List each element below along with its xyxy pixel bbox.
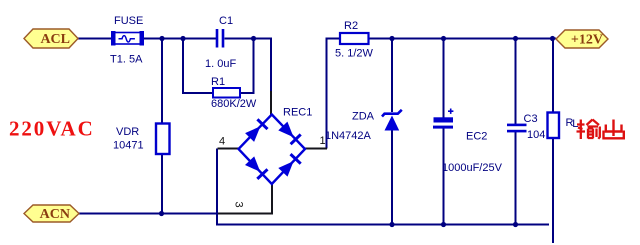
capacitor EC2 plus sign	[448, 109, 453, 114]
node C3 top	[513, 36, 518, 41]
node ZDA top	[389, 36, 394, 41]
diode REC1 bottom-right	[278, 154, 300, 177]
wire negative rail from pin4	[217, 149, 549, 225]
fuse FUSE element squiggle	[119, 36, 135, 42]
svg-text:REC1: REC1	[283, 107, 312, 119]
capacitor C3 top plate	[507, 124, 527, 127]
port ACL	[24, 29, 78, 48]
wire RL lower	[552, 138, 554, 244]
node fuse/VDR junction	[159, 36, 164, 41]
svg-text:680K/2W: 680K/2W	[211, 98, 257, 110]
svg-text:220VAC: 220VAC	[9, 117, 95, 141]
svg-text:+12V: +12V	[571, 33, 603, 48]
diode REC1 bottom-left	[245, 156, 268, 179]
wire C3 upper	[515, 39, 517, 125]
text output chinese shu	[577, 120, 600, 140]
diode REC1 top-left	[245, 119, 267, 142]
resistor RL	[548, 113, 560, 139]
svg-text:ACL: ACL	[40, 32, 70, 47]
resistor R2	[340, 33, 369, 44]
svg-text:VDR: VDR	[116, 126, 139, 138]
wire C1/R1 loop left	[183, 38, 213, 94]
zener ZDA bar	[382, 110, 402, 117]
wire C3 lower	[515, 132, 517, 225]
fuse FUSE right cap	[140, 31, 145, 46]
wire REC1 pin1 up to R2	[327, 39, 341, 149]
svg-text:C3: C3	[524, 113, 538, 125]
capacitor EC2 bottom plate	[433, 126, 453, 129]
svg-text:EC2: EC2	[466, 131, 487, 143]
port ACN	[24, 205, 79, 222]
wire REC1 pin2 stub	[270, 91, 272, 115]
resistor R1	[213, 88, 240, 98]
wire VDR branch vertical	[161, 39, 163, 214]
svg-text:T1. 5A: T1. 5A	[110, 54, 143, 66]
port +12V	[556, 30, 608, 48]
wire EC2 lower	[443, 128, 445, 225]
wire REC1 pin4 stub	[218, 148, 240, 150]
node C3 bottom	[513, 222, 518, 227]
varistor VDR	[156, 124, 170, 155]
wire ACN rail	[79, 213, 218, 215]
wire fuse to C1	[144, 38, 217, 40]
wire REC1 pin3 stub	[218, 183, 272, 214]
svg-text:5. 1/2W: 5. 1/2W	[335, 48, 374, 60]
svg-text:R1: R1	[211, 76, 225, 88]
wire C1 to bridge top corner	[225, 38, 272, 40]
wire RL upper	[552, 39, 554, 114]
diode REC1 top-right	[278, 122, 300, 145]
svg-text:3: 3	[233, 201, 245, 207]
wire EC2 upper	[443, 39, 445, 119]
svg-text:ZDA: ZDA	[352, 111, 375, 123]
svg-text:C1: C1	[219, 15, 233, 27]
svg-text:4: 4	[219, 136, 225, 148]
wire R2 to +12V rail	[369, 38, 557, 40]
svg-text:R2: R2	[344, 20, 358, 32]
node C1 loop left	[180, 36, 185, 41]
text output chinese chu	[604, 120, 624, 139]
wire REC1 pin1 stub	[304, 148, 327, 150]
bridge rectifier REC1 outline	[239, 115, 306, 185]
node VDR bottom	[159, 211, 164, 216]
capacitor EC2 top plate	[434, 117, 454, 122]
capacitor C1 right plate	[222, 29, 225, 48]
svg-text:1000uF/25V: 1000uF/25V	[442, 162, 503, 174]
node EC2 bottom	[441, 222, 446, 227]
zener ZDA triangle	[385, 116, 400, 131]
svg-text:1N4742A: 1N4742A	[325, 130, 372, 142]
wire corner down toward REC1 top	[270, 38, 272, 93]
capacitor C1 left plate	[216, 29, 219, 48]
fuse FUSE body	[114, 33, 142, 45]
wire ACL to fuse	[78, 38, 112, 40]
node ZDA bottom	[389, 222, 394, 227]
svg-text:FUSE: FUSE	[114, 15, 143, 27]
svg-text:ACN: ACN	[40, 207, 70, 222]
svg-text:1. 0uF: 1. 0uF	[205, 58, 236, 70]
capacitor C3 bottom plate	[507, 130, 527, 133]
node C1 loop right	[251, 36, 256, 41]
wire ZDA upper	[391, 39, 393, 113]
svg-text:10471: 10471	[113, 140, 144, 152]
wire ZDA lower	[391, 130, 393, 225]
wire C1/R1 loop right	[240, 38, 254, 94]
fuse FUSE left cap	[111, 31, 116, 46]
node RL top	[550, 36, 555, 41]
svg-text:104: 104	[527, 129, 545, 141]
node EC2 top	[441, 36, 446, 41]
